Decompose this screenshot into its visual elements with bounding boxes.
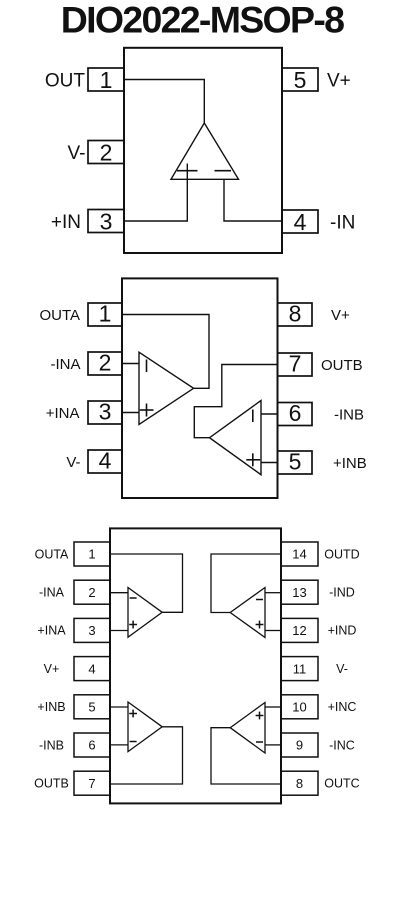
svg-text:5: 5 xyxy=(289,449,302,475)
wire pin6 -INB to op-amp B2 minus input xyxy=(261,413,278,415)
op-amp A1 triangle xyxy=(171,123,239,179)
svg-text:2: 2 xyxy=(100,140,113,166)
svg-text:-INA: -INA xyxy=(39,586,65,600)
svg-text:3: 3 xyxy=(100,209,113,235)
pin 7 box xyxy=(74,771,110,795)
op-amp A3 triangle xyxy=(128,588,162,638)
op-amp C3 minus input mark xyxy=(256,741,263,743)
op-amp A3 minus input mark xyxy=(130,597,137,599)
pin 1 label OUTA xyxy=(39,307,80,324)
pin 8 box xyxy=(278,301,313,327)
svg-text:9: 9 xyxy=(296,738,303,753)
pin 8 label OUTC xyxy=(324,777,359,791)
op-amp A2 plus input mark xyxy=(140,404,154,417)
svg-text:6: 6 xyxy=(289,400,302,426)
op-amp A1 plus input mark xyxy=(177,170,198,172)
IC body U3 package outline xyxy=(110,528,281,803)
pin 2 label V- xyxy=(68,143,86,164)
wire pin14 OUTD to op-amp D3 output xyxy=(211,554,281,613)
svg-text:-INA: -INA xyxy=(51,356,81,373)
svg-text:2: 2 xyxy=(88,585,95,600)
op-amp B2 triangle xyxy=(210,401,262,475)
op-amp C3 triangle xyxy=(230,703,265,754)
svg-text:V+: V+ xyxy=(327,71,351,92)
op-amp B2 minus input mark xyxy=(252,410,254,423)
pin 1 box xyxy=(88,301,122,327)
op-amp D3 plus input mark xyxy=(256,621,264,629)
wire pin12 +IND to op-amp D3 plus input xyxy=(265,630,281,632)
pin 3 box xyxy=(74,618,110,642)
pin 1 label OUTA xyxy=(35,547,69,561)
op-amp B3 triangle xyxy=(128,702,162,752)
wire pin2 -INA to op-amp A3 minus input xyxy=(110,592,128,594)
svg-text:V+: V+ xyxy=(331,307,350,324)
svg-text:V-: V- xyxy=(66,454,80,471)
wire pin6 -INB to op-amp B3 minus input xyxy=(110,744,128,746)
svg-text:-INB: -INB xyxy=(334,407,364,424)
pin 6 box xyxy=(74,733,110,757)
pin 1 box xyxy=(74,542,110,566)
svg-text:7: 7 xyxy=(289,351,302,377)
svg-text:+INA: +INA xyxy=(46,405,80,422)
pin 11 label V- xyxy=(336,662,348,676)
svg-text:OUTA: OUTA xyxy=(39,307,80,324)
svg-text:10: 10 xyxy=(292,700,306,715)
svg-text:-IND: -IND xyxy=(329,586,355,600)
pin 3 label +IN xyxy=(51,212,81,233)
svg-text:-INB: -INB xyxy=(39,738,64,752)
wire pin10 +INC to op-amp C3 plus input xyxy=(265,706,281,708)
svg-text:1: 1 xyxy=(100,67,113,93)
pin 10 label +INC xyxy=(328,700,357,714)
wire pin1 OUT to op-amp A1 output xyxy=(124,80,204,124)
wire pin4 -IN to op-amp A1 minus input xyxy=(224,179,282,221)
pin 3 label +INA xyxy=(46,405,80,422)
pin 5 box xyxy=(74,695,110,719)
svg-text:+INB: +INB xyxy=(37,700,65,714)
wire pin7 OUTB to op-amp B2 output xyxy=(194,365,277,438)
svg-text:8: 8 xyxy=(296,776,303,791)
svg-text:OUTC: OUTC xyxy=(324,777,359,791)
pin 7 label OUTB xyxy=(321,357,363,374)
pin 6 box xyxy=(278,400,313,426)
pin 2 box xyxy=(74,580,110,604)
wire pin7 OUTB to op-amp B3 output xyxy=(110,727,183,784)
pin 6 label -INB xyxy=(334,407,364,424)
op-amp D3 triangle xyxy=(230,588,265,638)
wire pin9 -INC to op-amp C3 minus input xyxy=(265,744,281,746)
svg-text:OUTB: OUTB xyxy=(34,777,69,791)
op-amp A1 minus input mark xyxy=(215,170,232,172)
pin 4 box xyxy=(74,657,110,681)
pin 6 label -INB xyxy=(39,738,64,752)
pin 7 box xyxy=(278,351,313,377)
pin 8 label V+ xyxy=(331,307,350,324)
svg-text:+INC: +INC xyxy=(328,700,357,714)
svg-text:13: 13 xyxy=(292,585,306,600)
wire pin5 +INB to op-amp B2 plus input xyxy=(261,462,278,464)
pin 4 label V+ xyxy=(44,662,60,676)
pin 2 box xyxy=(88,140,124,166)
pin 1 box xyxy=(88,67,124,93)
svg-text:+IN: +IN xyxy=(51,212,81,233)
wire pin3 +INA to op-amp A3 plus input xyxy=(110,630,128,632)
svg-text:4: 4 xyxy=(294,209,307,235)
svg-text:8: 8 xyxy=(289,301,302,327)
wire pin13 -IND to op-amp D3 minus input xyxy=(265,592,281,594)
pin 5 label V+ xyxy=(327,71,351,92)
IC body U2 package outline xyxy=(122,278,278,498)
pin 3 box xyxy=(88,399,122,425)
svg-text:-IN: -IN xyxy=(330,213,355,234)
svg-text:12: 12 xyxy=(292,623,306,638)
svg-text:11: 11 xyxy=(293,661,307,676)
svg-text:+INB: +INB xyxy=(333,455,367,472)
wire pin3 +INA to op-amp A2 plus input xyxy=(122,412,139,414)
svg-text:4: 4 xyxy=(88,661,95,676)
title DIO2022-MSOP-8 xyxy=(61,0,344,41)
pin 13 label -IND xyxy=(329,586,355,600)
pin 12 box xyxy=(281,618,318,642)
svg-text:3: 3 xyxy=(99,399,112,425)
op-amp C3 plus input mark xyxy=(256,712,264,720)
pin 12 label +IND xyxy=(328,624,357,638)
svg-text:14: 14 xyxy=(292,547,306,562)
svg-text:+INA: +INA xyxy=(37,624,66,638)
pin 4 label V- xyxy=(66,454,80,471)
wire pin5 +INB to op-amp B3 plus input xyxy=(110,706,128,708)
svg-text:2: 2 xyxy=(99,350,112,376)
op-amp B2 plus input mark xyxy=(246,453,260,466)
pin 4 box xyxy=(88,448,122,474)
svg-text:OUTA: OUTA xyxy=(35,547,69,561)
pin 3 label +INA xyxy=(37,624,66,638)
IC body U1 package outline xyxy=(124,48,282,253)
svg-text:OUTD: OUTD xyxy=(324,547,359,561)
svg-text:1: 1 xyxy=(99,301,112,327)
wire pin3 +IN to op-amp A1 plus input xyxy=(124,164,187,222)
pin 7 label OUTB xyxy=(34,777,69,791)
svg-text:V+: V+ xyxy=(44,662,60,676)
wire pin2 -INA to op-amp A2 minus input xyxy=(122,363,139,365)
pin 13 box xyxy=(281,580,318,604)
pin 5 label +INB xyxy=(37,700,65,714)
pin 5 box xyxy=(282,67,318,93)
pin 14 label OUTD xyxy=(324,547,359,561)
svg-text:4: 4 xyxy=(99,448,112,474)
op-amp B3 minus input mark xyxy=(130,741,137,743)
svg-text:1: 1 xyxy=(88,547,95,562)
svg-text:3: 3 xyxy=(88,623,95,638)
pin 5 box xyxy=(278,449,313,475)
svg-text:5: 5 xyxy=(294,67,307,93)
pin 2 label -INA xyxy=(39,586,65,600)
wire pin1 OUTA to op-amp A2 output xyxy=(122,315,209,389)
svg-text:DIO2022-MSOP-8: DIO2022-MSOP-8 xyxy=(61,0,344,41)
op-amp A3 plus input mark xyxy=(129,621,137,629)
pin 1 label OUT xyxy=(45,71,86,92)
svg-text:7: 7 xyxy=(88,776,95,791)
pin 2 label -INA xyxy=(51,356,81,373)
svg-text:OUTB: OUTB xyxy=(321,357,363,374)
pin 8 box xyxy=(281,771,318,795)
pin 9 box xyxy=(281,733,318,757)
pin 4 box xyxy=(282,209,318,235)
svg-text:+IND: +IND xyxy=(328,624,357,638)
op-amp A2 triangle xyxy=(139,352,194,424)
svg-text:OUT: OUT xyxy=(45,71,86,92)
op-amp D3 minus input mark xyxy=(256,599,263,601)
op-amp A2 minus input mark xyxy=(146,360,148,373)
pin 2 box xyxy=(88,350,122,376)
svg-text:6: 6 xyxy=(88,738,95,753)
pin 14 box xyxy=(281,542,318,566)
pin 9 label -INC xyxy=(329,738,355,752)
pin 10 box xyxy=(281,695,318,719)
svg-text:V-: V- xyxy=(336,662,348,676)
svg-text:-INC: -INC xyxy=(329,738,355,752)
pin 11 box xyxy=(281,657,318,681)
pin 3 box xyxy=(88,209,124,235)
wire pin1 OUTA to op-amp A3 output xyxy=(110,554,183,612)
pin 4 label -IN xyxy=(330,213,355,234)
svg-text:5: 5 xyxy=(88,700,95,715)
pin 5 label +INB xyxy=(333,455,367,472)
svg-text:V-: V- xyxy=(68,143,86,164)
op-amp B3 plus input mark xyxy=(129,710,137,718)
wire pin8 OUTC to op-amp C3 output xyxy=(211,728,281,784)
